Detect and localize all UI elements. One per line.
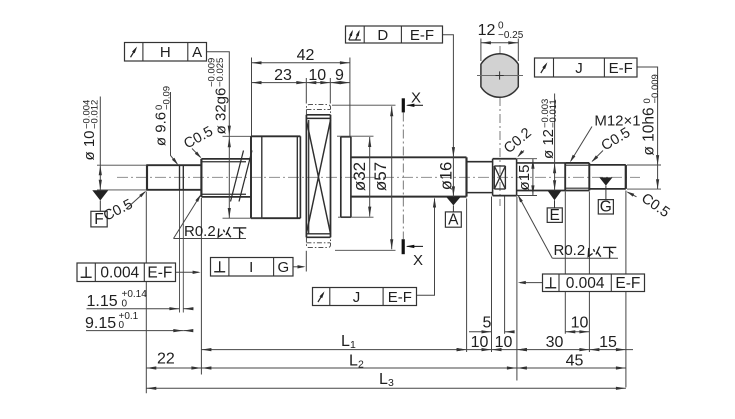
wrench flat crossed rectangle <box>494 165 505 167</box>
extension line right end face <box>625 191 627 388</box>
svg-text:D: D <box>377 27 388 44</box>
phi12/M12 boundary <box>564 163 566 191</box>
svg-text:G: G <box>277 259 289 276</box>
dimension 23 10 9 <box>252 82 350 84</box>
svg-text:30: 30 <box>546 334 564 351</box>
svg-text:E-F: E-F <box>388 289 412 306</box>
svg-text:I: I <box>249 259 253 276</box>
svg-text:ø 10h6: ø 10h6 <box>641 107 658 155</box>
feature control frame perpendicularity 0.004 E-F (right) <box>543 274 645 292</box>
svg-text:0: 0 <box>122 298 128 309</box>
svg-text:9: 9 <box>335 67 344 84</box>
phi10 dimension <box>97 164 147 166</box>
datum E triangle <box>548 191 562 200</box>
svg-text:23: 23 <box>274 67 292 84</box>
nut bottom cap phantom <box>306 237 330 247</box>
section view centerline vertical <box>499 46 501 206</box>
label R0.2 or less (left) with leader and underline <box>174 238 247 240</box>
extension line flat right <box>504 197 506 334</box>
thread runout section crest lines <box>201 158 251 160</box>
svg-text:10: 10 <box>308 67 326 84</box>
svg-text:10: 10 <box>495 334 513 351</box>
svg-text:ø 32g6: ø 32g6 <box>213 88 230 135</box>
svg-text:0: 0 <box>119 320 125 331</box>
svg-text:22: 22 <box>157 350 175 367</box>
svg-text:X: X <box>411 90 421 107</box>
svg-text:E-F: E-F <box>410 27 434 44</box>
dimension 5 flat length <box>469 331 492 333</box>
dimension 10 M12 length <box>565 331 589 333</box>
svg-text:−0.009: −0.009 <box>650 74 661 103</box>
phi15 dimension <box>517 158 537 160</box>
section cutting line X-X <box>402 113 404 240</box>
circlip groove phi9.6 <box>179 165 181 190</box>
svg-text:L: L <box>349 353 358 370</box>
extension line M12 end step <box>588 192 590 353</box>
svg-text:R0.2: R0.2 <box>184 223 216 240</box>
svg-text:ø16: ø16 <box>438 162 456 190</box>
dimension L2 <box>201 367 517 369</box>
svg-text:9.15: 9.15 <box>85 315 116 332</box>
svg-text:L: L <box>341 333 350 350</box>
datum label E <box>547 208 562 223</box>
nut top cap phantom <box>306 105 330 115</box>
svg-text:10: 10 <box>471 334 489 351</box>
svg-text:E-F: E-F <box>615 275 640 292</box>
svg-text:−0.25: −0.25 <box>498 30 524 41</box>
svg-text:45: 45 <box>566 353 584 370</box>
dimension 45 <box>517 367 626 369</box>
break mark diagonals <box>231 151 244 202</box>
svg-text:ø15: ø15 <box>516 165 533 191</box>
svg-text:3: 3 <box>388 377 394 389</box>
svg-text:2: 2 <box>358 359 364 371</box>
datum A triangle <box>446 197 460 205</box>
feature control frame perpendicularity 0.004 E-F (left) <box>77 263 176 282</box>
step to thread shoulder <box>200 159 202 197</box>
cross section of flat area - circle with two flats <box>481 54 518 98</box>
extension line nut left face <box>305 251 307 272</box>
section mark X top <box>402 98 405 112</box>
M12x1 thread section <box>565 162 589 164</box>
svg-text:5: 5 <box>483 315 492 332</box>
svg-text:E: E <box>550 207 560 224</box>
svg-text:J: J <box>353 289 361 306</box>
datum F triangle <box>92 190 108 200</box>
extension line phi15/phi12 boundary <box>516 197 518 381</box>
svg-text:10: 10 <box>571 314 589 331</box>
dimension 1.15 +0.14/0 groove width <box>87 308 180 310</box>
relief neck section <box>467 161 493 163</box>
section view center cross <box>496 75 504 77</box>
leader for right perpendicularity frame <box>520 282 543 284</box>
svg-text:−0.012: −0.012 <box>90 100 101 129</box>
ball screw thread cylinder phi32g6 <box>250 136 252 218</box>
phi15 wrench flat section <box>492 159 494 196</box>
datum label G <box>598 200 613 214</box>
ball nut simplified (crossed box) phi57 <box>305 115 307 238</box>
datum label F <box>91 211 107 227</box>
svg-text:−0.011: −0.011 <box>548 99 559 128</box>
dimension L3 <box>146 387 626 389</box>
svg-text:15: 15 <box>599 334 617 351</box>
label R0.2 or less (right) with leader and underline <box>552 257 618 259</box>
svg-text:H: H <box>160 44 171 61</box>
svg-text:0.004: 0.004 <box>566 275 605 292</box>
svg-text:J: J <box>575 60 583 77</box>
extension line from thread shoulder step <box>200 198 202 375</box>
feature control frame total runout D E-F <box>346 26 443 43</box>
extension lines for nut dimensions <box>251 58 253 136</box>
step M12 to phi10h6 <box>588 163 590 191</box>
svg-text:42: 42 <box>297 47 315 64</box>
feature control frame runout H A <box>125 43 207 62</box>
phi32g6 dimension line with leader to frame <box>207 52 230 218</box>
phi32 dimension (collar) <box>337 135 374 137</box>
dimension L1 <box>201 349 466 351</box>
leader for frame I G <box>293 266 304 268</box>
phi10h6 end journal <box>589 164 626 166</box>
svg-text:ø 9.6: ø 9.6 <box>153 112 170 146</box>
section view horizontal centerline <box>477 75 523 77</box>
extension lines from circlip groove <box>179 190 181 312</box>
svg-text:G: G <box>600 199 612 216</box>
phi16 journal <box>351 156 467 158</box>
extension line from left end face <box>145 192 147 394</box>
svg-text:E-F: E-F <box>147 265 172 282</box>
shaft centerline <box>117 176 640 178</box>
phi10h6 dimension with leader from frame J E-F <box>637 67 658 189</box>
svg-text:ø57: ø57 <box>371 162 390 191</box>
thread runout section root lines <box>201 161 246 163</box>
svg-text:X: X <box>413 252 423 269</box>
right end face <box>625 165 627 189</box>
svg-text:−0.025: −0.025 <box>215 58 226 87</box>
datum label A <box>445 212 461 227</box>
phi10 journal bottom edge <box>146 189 201 191</box>
svg-text:L: L <box>379 371 388 388</box>
feature control frame runout J E-F (bottom middle) <box>313 288 417 306</box>
feature control frame runout J E-F (top right) <box>535 58 638 77</box>
left end face of shaft <box>146 165 148 190</box>
svg-text:ø 12: ø 12 <box>540 129 557 159</box>
phi10 journal top edge <box>146 164 201 166</box>
svg-text:1: 1 <box>350 339 356 351</box>
svg-text:A: A <box>192 44 202 61</box>
leader frame J E-F bottom to phi16 surface <box>417 199 435 296</box>
datum G triangle on axis <box>599 177 612 185</box>
section mark X bottom <box>402 239 405 254</box>
dimension 15 <box>589 349 633 351</box>
extension line phi16 end face <box>466 199 468 353</box>
phi12 bearing journal <box>517 162 566 164</box>
extension line flats section left <box>491 197 493 353</box>
dimension 12 0/-0.25 across flats <box>480 39 482 62</box>
svg-text:A: A <box>448 212 459 229</box>
dimension 42 <box>252 62 350 64</box>
dimension 22 <box>146 367 201 369</box>
leader from frame D E-F down to phi16 and dimension phi16 <box>443 35 454 197</box>
dimensions 10 10 flats location <box>467 349 517 351</box>
phi12 dimension line <box>554 94 556 191</box>
dimension 9.15 +0.1/0 groove position <box>86 330 183 332</box>
svg-text:ø32: ø32 <box>350 162 369 191</box>
svg-text:0.004: 0.004 <box>100 265 139 282</box>
feature control frame perpendicularity I G <box>211 258 294 277</box>
svg-text:1.15: 1.15 <box>87 293 118 310</box>
dimension 30 <box>517 349 590 351</box>
svg-text:E-F: E-F <box>609 60 633 77</box>
leader for left perpendicularity frame <box>176 271 199 273</box>
svg-text:R0.2: R0.2 <box>554 242 586 259</box>
svg-text:M12×1: M12×1 <box>594 112 640 129</box>
svg-text:12: 12 <box>478 22 496 39</box>
svg-text:ø 10: ø 10 <box>81 130 98 160</box>
phi57 dimension (nut) <box>332 104 396 106</box>
collar ring phi32 <box>340 137 342 217</box>
extension line phi12/M12 boundary <box>564 192 566 334</box>
